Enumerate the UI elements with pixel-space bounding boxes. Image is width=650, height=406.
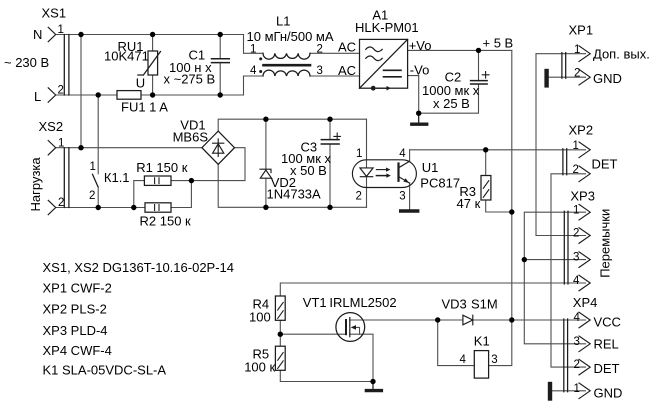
node VD2 bottom <box>263 205 268 210</box>
svg-text:-Vo: -Vo <box>410 63 430 78</box>
connector XP3 pin 2 <box>579 228 590 244</box>
svg-text:10K471: 10K471 <box>104 49 149 64</box>
connector XP4 pin 3 <box>579 336 590 352</box>
wire R1 right lead <box>171 180 191 182</box>
mosfet VT1 circle <box>336 313 365 342</box>
svg-text:х ~275 В: х ~275 В <box>164 71 216 86</box>
svg-text:N: N <box>33 27 42 42</box>
svg-text:XP2: XP2 <box>569 122 594 137</box>
svg-text:HLK-PM01: HLK-PM01 <box>355 20 419 35</box>
wire L1 pin3 to A1 AC <box>310 75 360 77</box>
wire -Vo down to ground node <box>408 76 419 114</box>
wire gate line XP3.4 <box>280 283 585 296</box>
ac-dc module A1 dc bars <box>384 70 402 77</box>
wire R4 bottom to gate <box>280 320 346 334</box>
svg-text:XP1 CWF-2: XP1 CWF-2 <box>43 280 112 295</box>
node N-XS2 junction <box>78 32 83 37</box>
wire bridge plus rail <box>218 119 366 131</box>
ac-dc module A1 tildes <box>366 47 382 61</box>
connector XP2 pin 2 <box>579 166 590 182</box>
wire XP3.1 REL column <box>524 212 585 344</box>
svg-text:XS1, XS2 DG136T-10.16-02P-14: XS1, XS2 DG136T-10.16-02P-14 <box>43 260 235 275</box>
wire DET line to XP2.1 <box>410 149 586 151</box>
node C3 top <box>327 117 332 122</box>
diode VD3 <box>463 315 473 325</box>
resistor R2 <box>145 203 171 212</box>
node RU1 bottom <box>150 92 155 97</box>
optocoupler U1 led <box>360 168 373 177</box>
WIRES-TOP-RIGHT <box>408 50 512 365</box>
svg-text:IRLML2502: IRLML2502 <box>329 295 396 310</box>
svg-text:4: 4 <box>574 312 581 324</box>
svg-text:~ 230 В: ~ 230 В <box>4 55 49 70</box>
wire opto pin1 <box>366 119 368 168</box>
svg-text:R1 150 к: R1 150 к <box>136 160 188 175</box>
node VT1 source ground <box>370 379 375 384</box>
wire L1 pin2 to A1 AC <box>310 52 360 54</box>
svg-text:10 мГн/500 мА: 10 мГн/500 мА <box>247 29 334 44</box>
connector XS2 housing <box>64 148 69 208</box>
connector XS1 pin 2 <box>48 88 56 102</box>
svg-text:4: 4 <box>250 65 257 77</box>
svg-text:100 к: 100 к <box>244 360 275 375</box>
mosfet VT1 arrow <box>351 325 356 330</box>
svg-text:S1M: S1M <box>471 296 498 311</box>
svg-text:XP4: XP4 <box>573 295 598 310</box>
wire N vertical to XS2.1 <box>80 35 82 148</box>
connector XP4 pin 4 <box>579 312 590 328</box>
wire VT1 drain to VD3/VCC <box>350 319 586 321</box>
ground at A1 <box>412 113 427 124</box>
svg-text:Перемычки: Перемычки <box>598 209 613 278</box>
capacitor C2 plus sign <box>482 72 489 79</box>
fuse FU1 <box>117 91 141 100</box>
wire VT1 source line <box>350 334 373 381</box>
optocoupler U1 phototransistor <box>399 161 410 183</box>
optocoupler U1 body <box>352 160 416 188</box>
optocoupler U1 light arrows <box>376 168 390 178</box>
svg-text:XP3: XP3 <box>570 189 595 204</box>
svg-text:2: 2 <box>573 164 579 176</box>
svg-text:MB6S: MB6S <box>173 130 209 145</box>
ground at XP1 pin2 <box>544 71 548 85</box>
connector XP1 pin 1 <box>579 46 590 62</box>
inductor L1 phase dot pin4 <box>259 70 262 73</box>
svg-text:GND: GND <box>594 385 623 400</box>
connector XP1 housing <box>562 53 566 79</box>
svg-text:VD3: VD3 <box>442 296 467 311</box>
node K1.1 top <box>96 92 101 97</box>
node R1-R2 left <box>131 205 136 210</box>
svg-text:AC: AC <box>338 40 356 55</box>
node R1-R2 right <box>189 178 194 183</box>
capacitor C2 <box>471 81 488 84</box>
svg-text:К1.1: К1.1 <box>104 170 130 185</box>
wire opto pin2 <box>366 177 368 208</box>
wire XP1.2 gnd <box>547 76 586 78</box>
svg-text:L1: L1 <box>276 13 290 28</box>
node XS2 pin1 junction <box>78 145 83 150</box>
svg-text:1: 1 <box>573 204 579 216</box>
connector XP3 pin 1 <box>579 204 590 220</box>
connector XP4 housing <box>564 319 568 392</box>
svg-text:U: U <box>136 76 145 91</box>
WIRES-XP-COLUMN <box>524 54 585 391</box>
svg-text:1: 1 <box>356 148 362 160</box>
connector XP3 pin 3 <box>579 252 590 268</box>
svg-text:2: 2 <box>58 197 64 209</box>
mosfet VT1 channel bar <box>349 318 351 337</box>
node C2 top <box>476 48 481 53</box>
svg-text:+ 5 В: + 5 В <box>483 36 514 51</box>
bridge rectifier VD1 diamond <box>202 131 235 164</box>
wire K1.1 bottom lead <box>97 187 99 208</box>
node XP3 pin3 junction <box>522 257 527 262</box>
wire RU1 leads <box>152 35 154 96</box>
wire XS2 pin2 to R2 <box>56 207 145 209</box>
svg-text:1: 1 <box>90 161 96 173</box>
svg-text:1: 1 <box>58 137 64 149</box>
inductor L1 top winding <box>263 53 310 59</box>
svg-text:GND: GND <box>593 71 622 86</box>
svg-text:2: 2 <box>574 67 580 79</box>
svg-text:XP1: XP1 <box>569 22 594 37</box>
connector XS1 housing <box>64 35 69 96</box>
svg-text:100: 100 <box>249 310 271 325</box>
ground at VT1 <box>366 382 381 391</box>
connector XS2 pin 1 <box>48 141 56 155</box>
ac-dc module A1 box <box>360 39 408 88</box>
node -Vo ground <box>416 111 421 116</box>
WIRES-230V <box>56 35 360 208</box>
connector XP3 pin 4 <box>579 275 590 291</box>
svg-text:DET: DET <box>592 156 618 171</box>
wire VD2 vertical <box>265 119 267 207</box>
resistor R4 <box>275 296 285 320</box>
wire L line XS1.2 through FU1 to C1 <box>56 76 263 95</box>
svg-text:3: 3 <box>399 191 405 203</box>
svg-text:DET: DET <box>594 361 620 376</box>
node VCC junction <box>509 317 514 322</box>
capacitor C3 plus sign <box>334 133 341 140</box>
node C3 bottom <box>327 205 332 210</box>
node C1 top <box>218 32 223 37</box>
ground at U1 pin3 <box>401 209 418 212</box>
wire XP1.1 aux out <box>536 54 586 236</box>
zener diode VD2 <box>260 169 272 178</box>
node R3 bottom +5V <box>509 209 514 214</box>
bridge rectifier VD1 inner diode <box>213 139 224 156</box>
node RU1 top <box>150 32 155 37</box>
node K1 branch <box>435 317 440 322</box>
mosfet VT1 gate bar <box>345 320 347 334</box>
connector XS1 pin 1 <box>48 27 56 41</box>
svg-text:2: 2 <box>574 359 580 371</box>
svg-text:AC: AC <box>338 63 356 78</box>
capacitor C1 <box>212 59 230 63</box>
svg-text:1: 1 <box>250 43 256 55</box>
connector XP4 pin 2 <box>579 359 590 375</box>
svg-text:4: 4 <box>399 148 406 160</box>
resistor R1 <box>144 176 171 185</box>
wire bridge minus rail <box>218 164 366 207</box>
node R3 top DET <box>483 147 488 152</box>
wire R1 left to pin2 line <box>134 181 145 208</box>
connector XP4 pin 1 <box>579 383 590 399</box>
connector XP2 pin 1 <box>579 142 590 158</box>
svg-text:4: 4 <box>460 354 467 366</box>
wire C2 top lead <box>478 50 480 80</box>
node C1 bottom <box>218 92 223 97</box>
svg-text:XP2 PLS-2: XP2 PLS-2 <box>43 302 107 317</box>
node K1.1 bottom <box>96 205 101 210</box>
node gate junction <box>278 332 283 337</box>
resistor R5 <box>275 346 285 370</box>
relay contact K1.1 <box>93 174 98 186</box>
wire opto pin4 up <box>409 150 411 162</box>
wire C1 leads <box>219 35 221 96</box>
WIRES-BOTTOM <box>280 283 585 382</box>
wire R5 leads <box>280 334 373 381</box>
svg-text:XP4 CWF-4: XP4 CWF-4 <box>43 343 112 358</box>
svg-text:1: 1 <box>58 24 64 36</box>
svg-text:+Vo: +Vo <box>409 38 432 53</box>
svg-text:VT1: VT1 <box>303 295 327 310</box>
inductor L1 phase dot pin1 <box>259 57 262 60</box>
svg-text:47 к: 47 к <box>457 196 481 211</box>
svg-text:2: 2 <box>573 228 579 240</box>
svg-text:FU1 1 A: FU1 1 A <box>121 100 168 115</box>
capacitor C3 <box>321 140 339 144</box>
svg-text:REL: REL <box>594 337 619 352</box>
wire N line XS1.1 to C1/L1 <box>56 35 263 54</box>
wire L dot down to K1.1 <box>97 95 99 174</box>
wire +Vo +5V rail <box>408 49 512 51</box>
svg-text:XP3 PLD-4: XP3 PLD-4 <box>43 323 108 338</box>
node VD2 top <box>263 117 268 122</box>
connector XP3 housing <box>564 211 568 284</box>
wire ground node to C2 bottom <box>419 84 479 113</box>
svg-text:1: 1 <box>573 140 579 152</box>
svg-text:Доп. вых.: Доп. вых. <box>593 47 650 62</box>
svg-text:U1: U1 <box>422 160 439 175</box>
svg-text:K1: K1 <box>474 334 490 349</box>
svg-text:K1 SLA-05VDC-SL-A: K1 SLA-05VDC-SL-A <box>43 363 167 378</box>
wire XP2.2 to XP4 DET <box>551 174 586 367</box>
svg-text:R2 150 к: R2 150 к <box>140 213 192 228</box>
resistor R3 <box>481 176 491 201</box>
svg-text:XS2: XS2 <box>39 119 64 134</box>
wire C3 leads <box>329 119 331 207</box>
svg-text:4: 4 <box>573 275 580 287</box>
wire +5V vertical column <box>489 50 512 365</box>
WIRES-LV <box>218 119 585 212</box>
svg-text:1: 1 <box>574 44 580 56</box>
svg-text:XS1: XS1 <box>42 6 67 21</box>
wire R3 bottom to +5V column <box>486 200 512 212</box>
connector XP2 housing <box>563 149 567 175</box>
svg-text:2: 2 <box>356 191 362 203</box>
svg-text:3: 3 <box>317 65 323 77</box>
svg-text:х 25 В: х 25 В <box>433 96 470 111</box>
svg-text:2: 2 <box>317 43 323 55</box>
wire K1 pin4 branch <box>438 320 475 366</box>
wire R3 top lead <box>485 150 487 176</box>
svg-text:L: L <box>34 89 41 104</box>
wire bridge right to R1 junction <box>191 148 245 181</box>
svg-text:2: 2 <box>58 85 64 97</box>
connector XS2 pin 2 <box>48 200 56 214</box>
wire VT1 source arrow branch <box>355 327 360 334</box>
wire XS2 pin1 to bridge left <box>56 147 202 149</box>
ground at XP4 pin1 <box>548 384 552 399</box>
svg-text:3: 3 <box>573 252 579 264</box>
svg-text:VCC: VCC <box>594 314 621 329</box>
relay coil K1 <box>474 351 488 379</box>
wire XP3.3 <box>524 259 585 261</box>
wire R2 right to R1 right junction <box>171 181 191 208</box>
svg-text:PC817: PC817 <box>420 176 460 191</box>
ac-dc module A1 output dot and arrow <box>371 86 391 91</box>
wire opto pin3 to ground <box>409 183 411 209</box>
svg-text:1: 1 <box>574 383 580 395</box>
svg-text:Нагрузка: Нагрузка <box>28 157 43 212</box>
wire XP4.1 gnd <box>550 390 586 392</box>
svg-text:2: 2 <box>89 190 95 202</box>
inductor L1 core <box>264 64 311 67</box>
connector XP1 pin 2 <box>579 69 590 85</box>
inductor L1 bottom winding <box>263 70 310 76</box>
svg-text:3: 3 <box>574 336 580 348</box>
svg-text:1N4733A: 1N4733A <box>267 187 322 202</box>
svg-text:3: 3 <box>491 354 497 366</box>
varistor RU1 <box>138 51 161 75</box>
